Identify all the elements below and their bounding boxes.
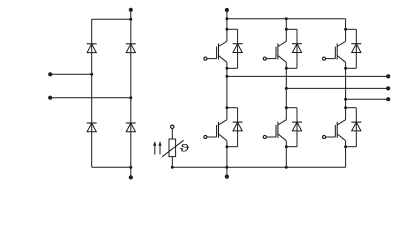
- wire inverter DC+ rail: [227, 18, 346, 20]
- phase U terminal: [386, 74, 390, 78]
- transistor Q2: [276, 29, 286, 68]
- rectifier DC- terminal: [129, 167, 133, 179]
- node junction bottom rail / right leg: [129, 166, 132, 169]
- transistor Q4: [217, 108, 227, 147]
- thermistor RT1: [162, 139, 184, 157]
- node junction merge Q5: [285, 145, 288, 148]
- wire Q1 collector link: [227, 29, 238, 43]
- node junction split Q5: [285, 106, 288, 109]
- node junction merge Q1: [225, 67, 228, 70]
- node junction DC+ / leg2: [285, 17, 288, 20]
- node junction N / right leg: [129, 96, 132, 99]
- wire leg3 midpoint: [345, 68, 347, 107]
- wire phase U output: [227, 75, 388, 77]
- wire Q3 collector link: [346, 29, 357, 43]
- wire RT1 bottom lead: [171, 157, 173, 168]
- transistor Q3: [335, 29, 345, 68]
- node junction split Q4: [225, 106, 228, 109]
- thermistor RT1 theta label: [180, 144, 190, 152]
- gate terminal G6: [323, 135, 336, 138]
- node junction split Q1: [225, 28, 228, 31]
- diode D1: [87, 44, 97, 53]
- diode D8: [233, 122, 243, 131]
- wire rectifier top rail: [92, 18, 131, 20]
- node junction split Q3: [344, 28, 347, 31]
- node junction U / leg1: [225, 75, 228, 78]
- wire phase W output: [346, 98, 389, 100]
- inverter DC- terminal: [225, 167, 229, 178]
- node junction RT1 / N bus: [171, 166, 174, 169]
- wire D7 anode link: [346, 53, 357, 69]
- wire leg1 midpoint: [226, 68, 228, 107]
- diode D6: [292, 44, 302, 53]
- wire DC+ rail to leg3: [345, 19, 347, 30]
- node junction merge Q3: [344, 67, 347, 70]
- wire Q6 collector link: [346, 108, 357, 122]
- node junction L / left leg: [90, 73, 93, 76]
- thermistor RT1 temperature arrows: [153, 141, 161, 155]
- node junction DC- / leg2: [285, 166, 288, 169]
- diode D9: [292, 122, 302, 131]
- gate terminal G4: [204, 135, 217, 138]
- wire RT1 terminal lead: [171, 129, 173, 140]
- phase V terminal: [386, 86, 390, 90]
- wire D10 anode link: [346, 131, 357, 147]
- gate terminal G3: [323, 57, 336, 60]
- gate terminal G2: [263, 57, 276, 60]
- wire leg1 emitter to DC- rail: [226, 147, 228, 168]
- node junction merge Q4: [225, 145, 228, 148]
- node junction merge Q6: [344, 145, 347, 148]
- transistor Q6: [335, 108, 345, 147]
- AC input terminal L: [48, 72, 52, 76]
- wire DC+ rail to leg1: [226, 19, 228, 30]
- node junction split Q2: [285, 28, 288, 31]
- diode D4: [126, 123, 136, 132]
- transistor Q1: [217, 29, 227, 68]
- wire rectifier bottom rail: [92, 166, 131, 168]
- diode D3: [87, 123, 97, 132]
- node junction top rail / right leg: [129, 18, 132, 21]
- phase W terminal: [386, 97, 390, 101]
- wire Q4 collector link: [227, 108, 238, 122]
- thermistor RT1 terminal: [171, 125, 174, 128]
- gate terminal G1: [204, 57, 217, 60]
- diode D7: [351, 44, 361, 53]
- wire AC input N to right leg: [50, 97, 131, 99]
- node junction W / leg3: [344, 98, 347, 101]
- wire DC+ rail to leg2: [285, 19, 287, 30]
- rectifier DC+ terminal: [129, 8, 133, 20]
- wire Q5 collector link: [286, 108, 297, 122]
- wire phase V output: [286, 87, 388, 89]
- diode D10: [351, 122, 361, 131]
- wire Q2 collector link: [286, 29, 297, 43]
- wire rectifier left leg: [91, 19, 93, 167]
- transistor Q5: [276, 108, 286, 147]
- inverter DC+ terminal: [225, 8, 229, 19]
- node junction DC- / leg1: [225, 166, 228, 169]
- wire AC input L to left leg: [50, 73, 91, 75]
- wire inverter DC- rail: [172, 166, 345, 168]
- wire D9 anode link: [286, 131, 297, 147]
- wire D8 anode link: [227, 131, 238, 147]
- node junction DC+ / leg1: [225, 17, 228, 20]
- diode D5: [233, 44, 243, 53]
- wire D6 anode link: [286, 53, 297, 69]
- gate terminal G5: [263, 135, 276, 138]
- AC input terminal N: [48, 96, 52, 100]
- node junction split Q6: [344, 106, 347, 109]
- wire leg3 emitter to DC- rail: [345, 147, 347, 168]
- wire rectifier right leg: [130, 19, 132, 167]
- node junction merge Q2: [285, 67, 288, 70]
- node junction V / leg2: [285, 87, 288, 90]
- wire leg2 emitter to DC- rail: [285, 147, 287, 168]
- diode D2: [126, 44, 136, 53]
- wire leg2 midpoint: [285, 68, 287, 107]
- wire D5 anode link: [227, 53, 238, 69]
